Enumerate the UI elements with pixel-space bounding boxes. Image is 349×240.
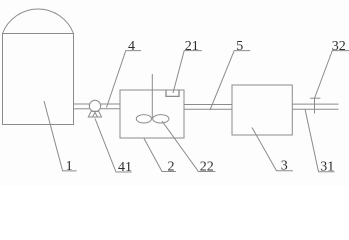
svg-text:3: 3 bbox=[281, 159, 288, 174]
svg-text:32: 32 bbox=[332, 39, 346, 54]
svg-text:4: 4 bbox=[128, 39, 135, 54]
svg-text:22: 22 bbox=[200, 159, 214, 174]
svg-text:2: 2 bbox=[168, 160, 175, 175]
svg-text:1: 1 bbox=[66, 159, 73, 174]
svg-text:21: 21 bbox=[185, 39, 199, 54]
svg-text:5: 5 bbox=[236, 39, 243, 54]
svg-text:31: 31 bbox=[320, 160, 334, 175]
svg-text:41: 41 bbox=[118, 160, 132, 175]
